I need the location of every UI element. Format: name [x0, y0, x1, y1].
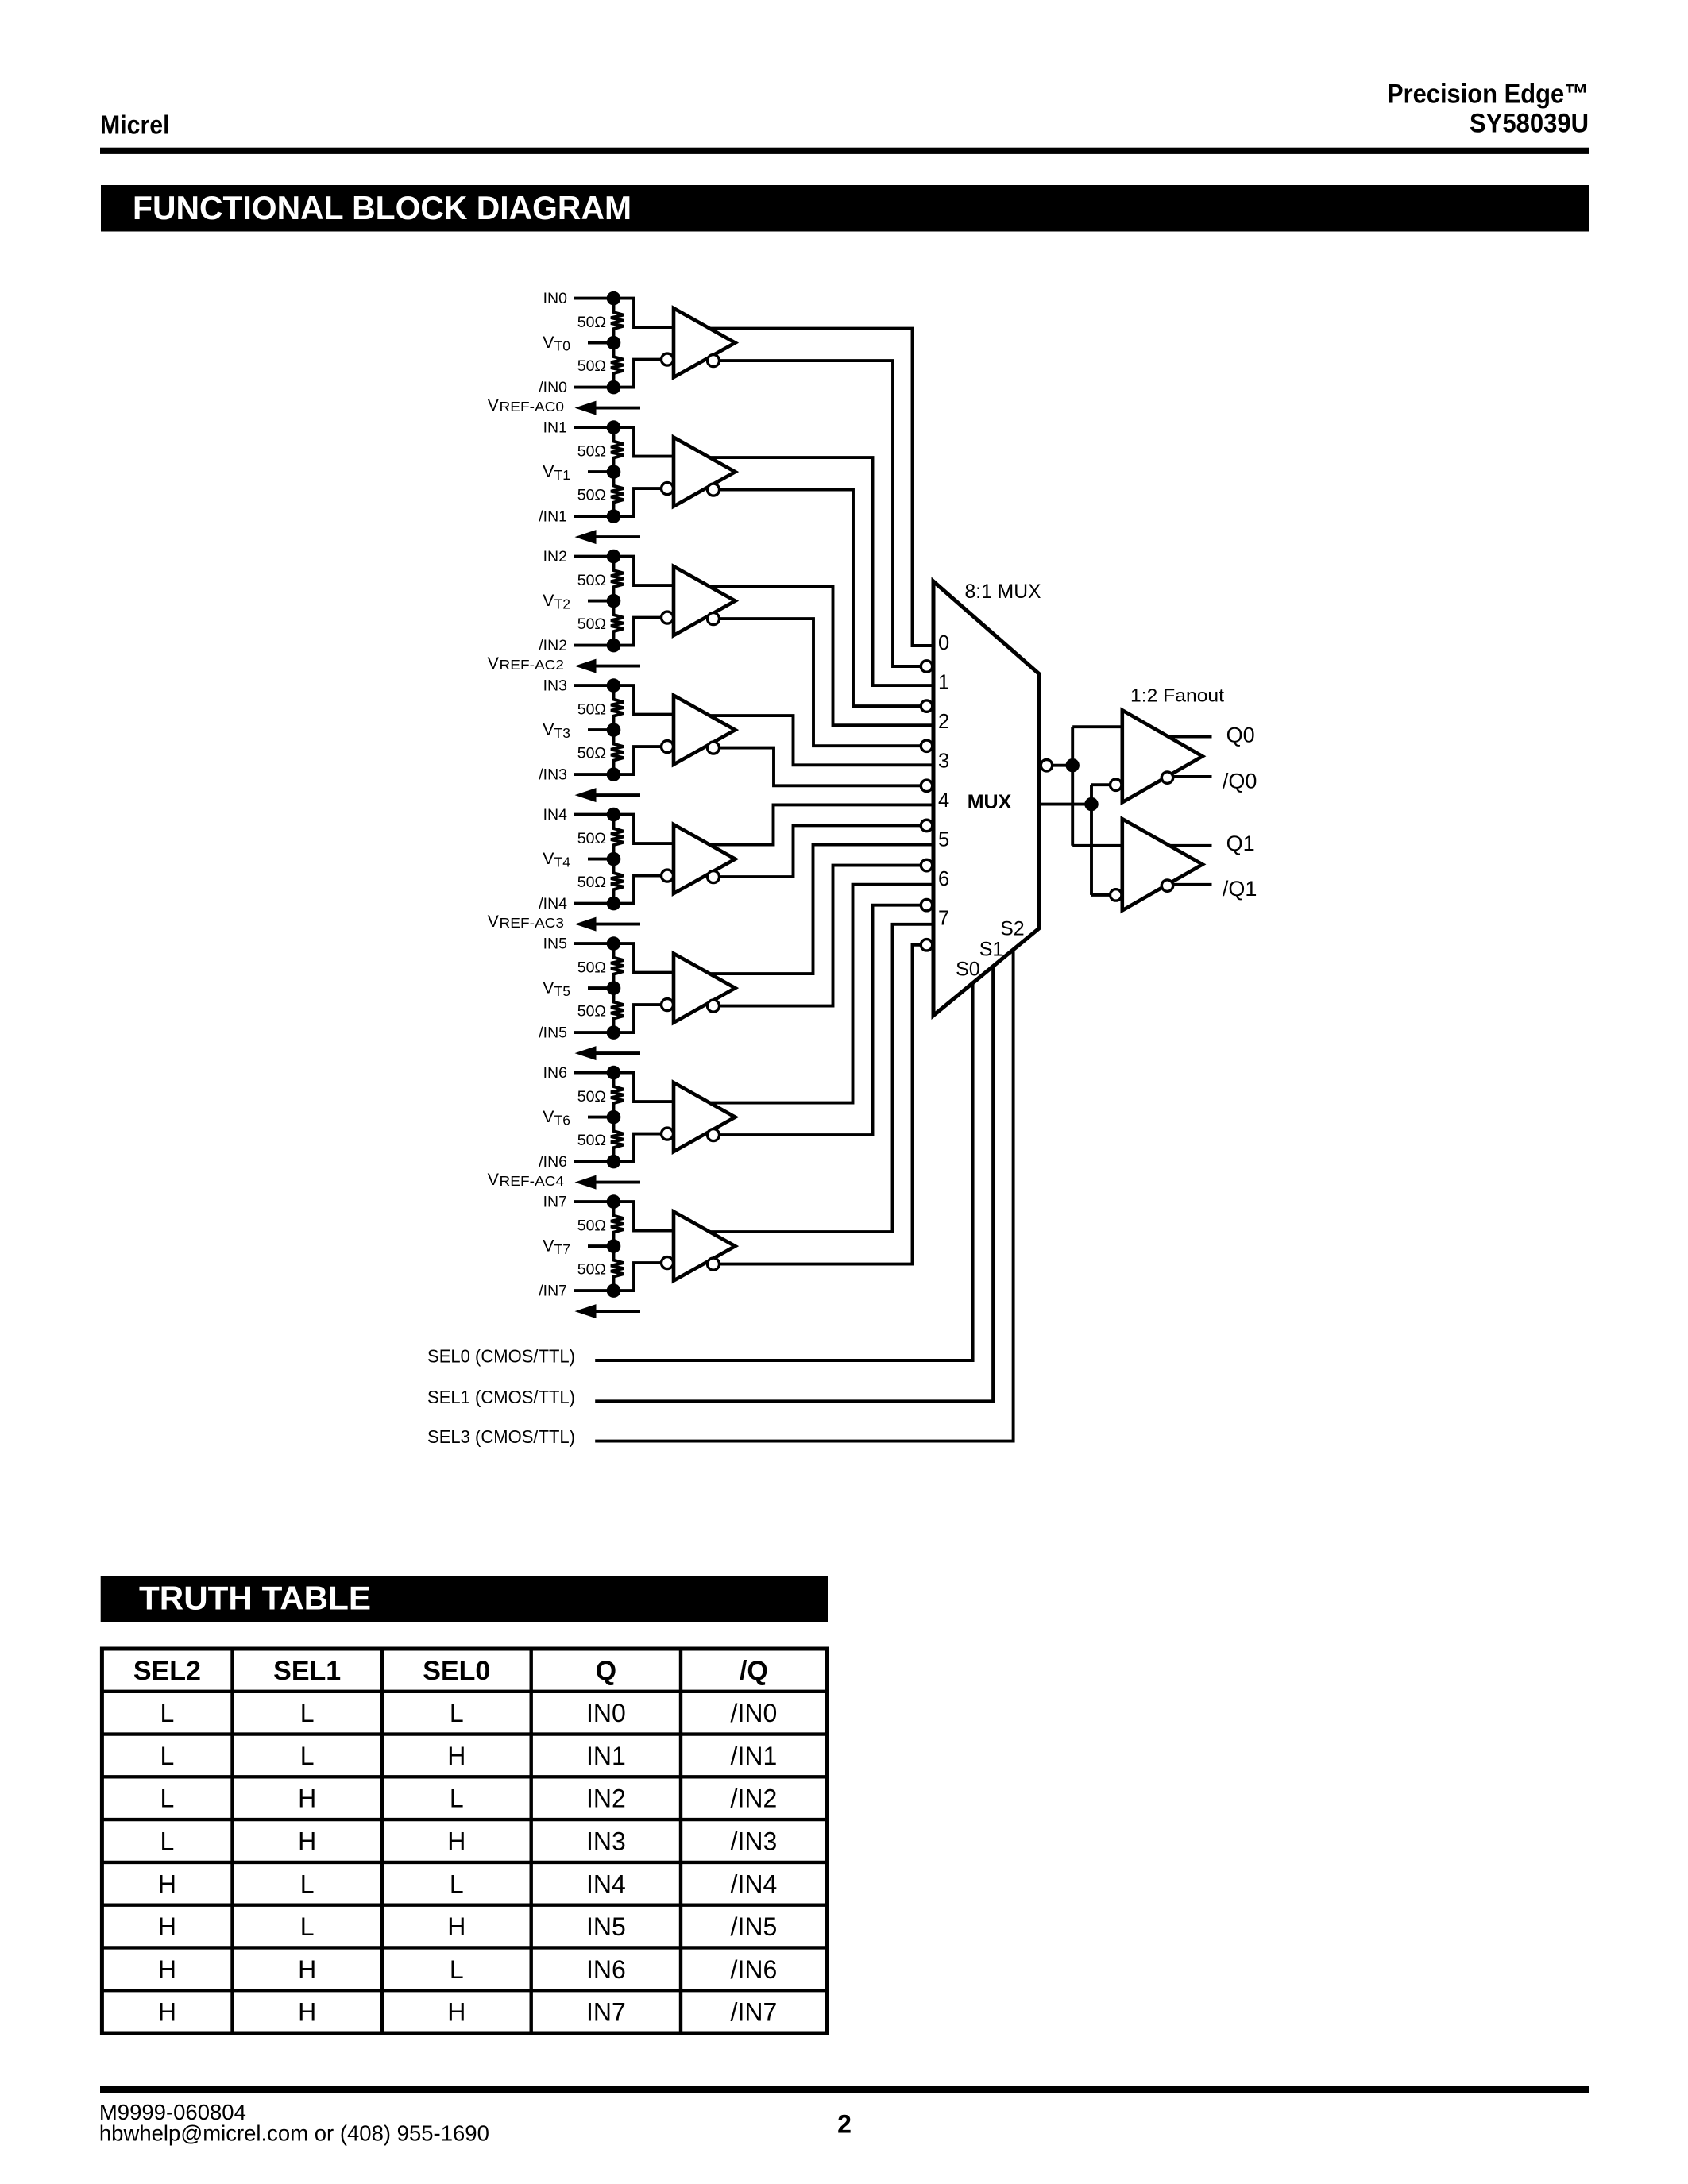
svg-text:L: L — [300, 1699, 315, 1727]
svg-text:hbwhelp@micrel.com or (408) 95: hbwhelp@micrel.com or (408) 955-1690 — [99, 2121, 489, 2146]
junction dots on IN3/VT3//IN3 leads — [607, 678, 621, 781]
input SEL0: select line — [427, 983, 973, 1367]
resistor R7 50&#937; (IN3 to VT3) — [577, 685, 624, 730]
svg-text:/IN1: /IN1 — [539, 508, 567, 526]
svg-text:IN0: IN0 — [586, 1699, 626, 1727]
svg-text:/Q: /Q — [740, 1656, 768, 1686]
svg-text:/Q0: /Q0 — [1223, 770, 1257, 793]
svg-text:MUX: MUX — [968, 791, 1012, 813]
svg-text:V: V — [488, 396, 500, 415]
wire buffer B7 inverted output to MUX pin 7 bubble — [713, 945, 921, 1264]
svg-text:H: H — [298, 1827, 316, 1856]
input SEL1: select line — [427, 967, 993, 1407]
svg-text:IN5: IN5 — [586, 1912, 626, 1941]
wire IN2 to buffer B2 true input — [614, 557, 679, 586]
input SEL3: select line — [427, 950, 1014, 1447]
svg-text:50Ω: 50Ω — [577, 572, 606, 589]
svg-text:/IN6: /IN6 — [539, 1153, 567, 1171]
node VT6: termination voltage stub — [543, 1107, 613, 1129]
svg-text:H: H — [158, 1870, 176, 1898]
MUX pin 6 inverting bubble — [921, 899, 932, 910]
svg-text:SEL0 (CMOS/TTL): SEL0 (CMOS/TTL) — [427, 1346, 575, 1367]
svg-text:IN1: IN1 — [543, 419, 567, 437]
wire fanout F0 true output to Q0 — [1130, 735, 1212, 739]
svg-text:H: H — [158, 1998, 176, 2027]
svg-text:1:2 Fanout: 1:2 Fanout — [1130, 685, 1224, 706]
svg-text:SEL1: SEL1 — [273, 1656, 341, 1686]
wire /IN3 to buffer B3 inverting input — [614, 747, 662, 774]
node VT4: termination voltage stub — [543, 849, 613, 870]
resistor R5 50&#937; (IN2 to VT2) — [577, 557, 624, 601]
svg-text:/IN2: /IN2 — [731, 1785, 778, 1813]
wire buffer B2 inverted output to MUX pin 2 bubble — [713, 619, 921, 746]
svg-text:/IN4: /IN4 — [539, 895, 567, 913]
wire fanout F1 inverted output to /Q1 — [1168, 883, 1212, 886]
node IN5: input label and lead — [543, 936, 614, 953]
svg-text:L: L — [160, 1699, 175, 1727]
resistor R9 50&#937; (IN4 to VT4) — [577, 815, 624, 859]
resistor R8 50&#937; (VT3 to /IN3) — [577, 730, 624, 774]
svg-text:5: 5 — [938, 829, 949, 851]
wire /IN4 to buffer B4 inverting input — [614, 876, 662, 904]
wire buffer B3 inverted output to MUX pin 3 bubble — [713, 748, 921, 786]
svg-text:T4: T4 — [554, 855, 571, 870]
MUX inverted output bubble — [1041, 760, 1052, 771]
svg-text:L: L — [300, 1870, 315, 1898]
node VT2: termination voltage stub — [543, 591, 613, 612]
resistor R2 50&#937; (VT0 to /IN0) — [577, 343, 624, 388]
svg-text:L: L — [450, 1785, 464, 1813]
svg-text:L: L — [300, 1912, 315, 1941]
svg-text:50Ω: 50Ω — [577, 314, 606, 331]
wire /IN6 to buffer B6 inverting input — [614, 1134, 662, 1162]
resistor R15 50&#937; (IN7 to VT7) — [577, 1202, 624, 1246]
svg-text:IN7: IN7 — [586, 1998, 626, 2027]
node /IN1: complement input label and lead — [539, 508, 613, 526]
resistor R11 50&#937; (IN5 to VT5) — [577, 943, 624, 988]
node /IN4: complement input label and lead — [539, 895, 613, 913]
svg-text:T6: T6 — [554, 1113, 570, 1129]
junction node at MUX true output — [1084, 797, 1098, 811]
svg-text:L: L — [160, 1785, 175, 1813]
8:1 MUX U1 body — [933, 581, 1039, 1016]
svg-text:/IN7: /IN7 — [539, 1283, 567, 1300]
svg-text:50Ω: 50Ω — [577, 1261, 606, 1279]
wire /IN0 to buffer B0 inverting input — [614, 360, 662, 388]
svg-text:Q0: Q0 — [1226, 723, 1255, 747]
fanout buffer F0 — [1111, 710, 1203, 802]
node VREF-AC2: reference output arrow — [488, 654, 640, 673]
resistor R6 50&#937; (VT2 to /IN2) — [577, 601, 624, 646]
node VT1: termination voltage stub — [543, 462, 613, 484]
truth table grid — [102, 1649, 826, 2033]
svg-text:3: 3 — [938, 751, 949, 773]
MUX pin 0 inverting bubble — [921, 661, 932, 672]
svg-text:SY58039U: SY58039U — [1470, 109, 1589, 139]
junction dots on IN5/VT5//IN5 leads — [607, 936, 621, 1040]
resistor R12 50&#937; (VT5 to /IN5) — [577, 988, 624, 1032]
wire IN5 to buffer B5 true input — [614, 943, 679, 973]
svg-text:IN5: IN5 — [543, 936, 568, 953]
svg-text:2: 2 — [938, 711, 949, 733]
node IN4: input label and lead — [543, 806, 614, 824]
junction node at MUX inverted output — [1066, 758, 1080, 772]
resistor R10 50&#937; (VT4 to /IN4) — [577, 859, 624, 904]
wire fanout F1 true output to Q1 — [1130, 844, 1212, 847]
unlabeled reference output arrow — [575, 530, 641, 544]
truth table row 7: H H L IN6 /IN6 — [158, 1955, 777, 1984]
MUX pin 4 inverting bubble — [921, 820, 932, 831]
svg-text:IN6: IN6 — [586, 1955, 626, 1984]
svg-text:50Ω: 50Ω — [577, 442, 606, 460]
truth table row 2: L L H IN1 /IN1 — [160, 1742, 778, 1770]
resistor R3 50&#937; (IN1 to VT1) — [577, 427, 624, 472]
svg-text:6: 6 — [938, 868, 949, 890]
svg-text:V: V — [543, 591, 554, 610]
svg-text:50Ω: 50Ω — [577, 700, 606, 718]
svg-text:REF-AC3: REF-AC3 — [500, 915, 565, 931]
truth table row 3: L H L IN2 /IN2 — [160, 1785, 778, 1813]
svg-text:Precision Edge™: Precision Edge™ — [1387, 79, 1589, 110]
resistor R4 50&#937; (VT1 to /IN1) — [577, 472, 624, 516]
junction dots on IN2/VT2//IN2 leads — [607, 550, 621, 653]
svg-text:H: H — [447, 1827, 465, 1856]
resistor R16 50&#937; (VT7 to /IN7) — [577, 1246, 624, 1291]
svg-text:L: L — [160, 1742, 175, 1770]
svg-text:50Ω: 50Ω — [577, 874, 606, 891]
unlabeled reference output arrow — [575, 1304, 641, 1318]
node /IN3: complement input label and lead — [539, 766, 613, 784]
node /IN0: complement input label and lead — [539, 379, 613, 396]
node VT3: termination voltage stub — [543, 720, 613, 742]
fanout buffer F1 — [1111, 819, 1203, 910]
MUX select pin S0 — [956, 958, 980, 980]
svg-text:H: H — [158, 1912, 176, 1941]
svg-text:TRUTH TABLE: TRUTH TABLE — [139, 1580, 371, 1617]
node IN1: input label and lead — [543, 419, 614, 437]
buffer B1 — [662, 438, 736, 507]
footer rule — [100, 2086, 1589, 2093]
wire buffer B2 true output to MUX pin 2 — [677, 587, 937, 726]
svg-text:Micrel: Micrel — [100, 111, 170, 141]
svg-text:/IN1: /IN1 — [731, 1742, 778, 1770]
svg-text:V: V — [543, 333, 554, 352]
svg-text:H: H — [298, 1785, 316, 1813]
node /IN5: complement input label and lead — [539, 1024, 613, 1042]
truth table row 1: L L L IN0 /IN0 — [160, 1699, 778, 1727]
buffer B6 — [662, 1082, 736, 1152]
svg-text:IN3: IN3 — [586, 1827, 626, 1856]
wire IN7 to buffer B7 true input — [614, 1202, 679, 1231]
buffer B4 — [662, 824, 736, 893]
svg-text:H: H — [447, 1912, 465, 1941]
node VREF-AC3: reference output arrow — [488, 912, 640, 932]
svg-text:SEL1 (CMOS/TTL): SEL1 (CMOS/TTL) — [427, 1387, 575, 1407]
wire /IN5 to buffer B5 inverting input — [614, 1005, 662, 1032]
svg-text:L: L — [450, 1955, 464, 1984]
svg-text:IN7: IN7 — [543, 1194, 567, 1211]
svg-text:T7: T7 — [554, 1241, 570, 1257]
svg-text:IN4: IN4 — [586, 1870, 626, 1898]
svg-text:L: L — [160, 1827, 175, 1856]
junction dots on IN4/VT4//IN4 leads — [607, 808, 621, 911]
node VREF-AC4: reference output arrow — [488, 1170, 640, 1190]
wire IN6 to buffer B6 true input — [614, 1073, 679, 1102]
svg-text:IN1: IN1 — [586, 1742, 626, 1770]
section bar: TRUTH TABLE — [101, 1576, 828, 1623]
svg-text:H: H — [158, 1955, 176, 1984]
svg-text:V: V — [543, 462, 554, 481]
svg-text:V: V — [543, 1237, 554, 1256]
svg-text:T2: T2 — [554, 596, 570, 612]
svg-text:/IN6: /IN6 — [731, 1955, 778, 1984]
truth table row 8: H H H IN7 /IN7 — [158, 1998, 777, 2027]
wire buffer B4 inverted output to MUX pin 4 bubble — [713, 825, 921, 877]
wire buffer B6 true output to MUX pin 6 — [677, 885, 937, 1103]
svg-text:/IN5: /IN5 — [731, 1912, 778, 1941]
node /IN6: complement input label and lead — [539, 1153, 613, 1171]
svg-text:SEL0: SEL0 — [423, 1656, 490, 1686]
wire fanout F0 inverted output to /Q0 — [1168, 775, 1212, 778]
svg-text:/Q1: /Q1 — [1223, 877, 1257, 901]
node IN2: input label and lead — [543, 548, 614, 565]
svg-text:2: 2 — [837, 2110, 852, 2139]
wire buffer B1 inverted output to MUX pin 1 bubble — [713, 490, 921, 707]
svg-text:50Ω: 50Ω — [577, 830, 606, 847]
wire buffer B5 inverted output to MUX pin 5 bubble — [713, 866, 921, 1006]
resistor R14 50&#937; (VT6 to /IN6) — [577, 1117, 624, 1162]
svg-text:50Ω: 50Ω — [577, 615, 606, 633]
svg-text:H: H — [298, 1998, 316, 2027]
svg-text:IN6: IN6 — [543, 1064, 567, 1082]
node VT7: termination voltage stub — [543, 1237, 613, 1258]
node IN0: input label and lead — [543, 290, 614, 307]
truth table row 4: L H H IN3 /IN3 — [160, 1827, 778, 1856]
svg-text:50Ω: 50Ω — [577, 1088, 606, 1106]
svg-text:0: 0 — [938, 632, 949, 654]
section bar: FUNCTIONAL BLOCK DIAGRAM — [101, 185, 1589, 232]
wire buffer B7 true output to MUX pin 7 — [677, 924, 937, 1232]
svg-text:V: V — [488, 1170, 500, 1189]
svg-text:SEL3 (CMOS/TTL): SEL3 (CMOS/TTL) — [427, 1426, 575, 1447]
svg-text:T5: T5 — [554, 983, 570, 999]
svg-text:L: L — [450, 1870, 464, 1898]
svg-text:/IN3: /IN3 — [539, 766, 567, 784]
resistor R1 50&#937; (IN0 to VT0) — [577, 299, 624, 343]
wire MUX inverted output to fanout true inputs — [1053, 764, 1073, 767]
node IN3: input label and lead — [543, 677, 614, 695]
svg-text:S1: S1 — [979, 939, 1004, 961]
svg-text:SEL2: SEL2 — [133, 1656, 201, 1686]
svg-text:/IN2: /IN2 — [539, 637, 567, 654]
wire buffer B5 true output to MUX pin 5 — [677, 845, 937, 974]
node VREF-AC0: reference output arrow — [488, 396, 640, 415]
svg-text:/IN0: /IN0 — [731, 1699, 778, 1727]
svg-text:/IN0: /IN0 — [539, 379, 567, 396]
svg-text:Q: Q — [596, 1656, 616, 1686]
svg-text:1: 1 — [938, 672, 949, 694]
svg-text:/IN3: /IN3 — [731, 1827, 778, 1856]
MUX pin 5 inverting bubble — [921, 859, 932, 870]
resistor R13 50&#937; (IN6 to VT6) — [577, 1073, 624, 1117]
MUX select pin S1 — [979, 939, 1004, 961]
svg-text:S0: S0 — [956, 958, 980, 980]
svg-text:V: V — [488, 654, 500, 673]
svg-text:REF-AC0: REF-AC0 — [500, 399, 565, 415]
junction dots on IN1/VT1//IN1 leads — [607, 420, 621, 523]
wire MUX true output to fanout inverting inputs — [1039, 803, 1091, 806]
MUX pin 1 inverting bubble — [921, 700, 932, 712]
buffer B5 — [662, 954, 736, 1023]
svg-text:L: L — [450, 1699, 464, 1727]
svg-text:50Ω: 50Ω — [577, 959, 606, 976]
truth table row 6: H L H IN5 /IN5 — [158, 1912, 777, 1941]
svg-text:8:1 MUX: 8:1 MUX — [965, 581, 1041, 603]
svg-text:V: V — [543, 720, 554, 739]
wire /IN2 to buffer B2 inverting input — [614, 618, 662, 646]
svg-text:T3: T3 — [554, 725, 570, 741]
wire IN3 to buffer B3 true input — [614, 685, 679, 715]
svg-text:7: 7 — [938, 908, 949, 930]
MUX pin 7 inverting bubble — [921, 940, 932, 951]
truth table header row — [133, 1656, 768, 1686]
svg-text:IN2: IN2 — [586, 1785, 626, 1813]
node IN7: input label and lead — [543, 1194, 614, 1211]
buffer B7 — [662, 1212, 736, 1281]
svg-text:L: L — [300, 1742, 315, 1770]
node /IN7: complement input label and lead — [539, 1283, 613, 1300]
unlabeled reference output arrow — [575, 1046, 641, 1060]
buffer B2 — [662, 566, 736, 635]
node /IN2: complement input label and lead — [539, 637, 613, 654]
wire IN1 to buffer B1 true input — [614, 427, 679, 457]
svg-text:/IN4: /IN4 — [731, 1870, 778, 1898]
svg-text:50Ω: 50Ω — [577, 357, 606, 375]
wire IN4 to buffer B4 true input — [614, 815, 679, 844]
svg-text:V: V — [543, 849, 554, 868]
svg-text:T1: T1 — [554, 467, 570, 483]
MUX pin 2 inverting bubble — [921, 740, 932, 751]
svg-text:IN4: IN4 — [543, 806, 568, 824]
buffer B0 — [662, 308, 736, 377]
wire buffer B3 true output to MUX pin 3 — [677, 716, 937, 765]
svg-text:50Ω: 50Ω — [577, 487, 606, 504]
wire buffer B0 inverted output to MUX pin 0 bubble — [713, 361, 921, 666]
wire buffer B0 true output to MUX pin 0 — [677, 329, 937, 646]
wire buffer B4 true output to MUX pin 4 — [677, 805, 937, 844]
svg-text:IN0: IN0 — [543, 290, 568, 307]
svg-text:T0: T0 — [554, 338, 571, 354]
svg-text:IN3: IN3 — [543, 677, 567, 695]
svg-text:REF-AC2: REF-AC2 — [500, 657, 565, 673]
MUX pin 3 inverting bubble — [921, 780, 932, 791]
svg-text:/IN7: /IN7 — [731, 1998, 778, 2027]
svg-text:50Ω: 50Ω — [577, 1003, 606, 1021]
wire IN0 to buffer B0 true input — [614, 299, 679, 328]
svg-text:50Ω: 50Ω — [577, 1217, 606, 1234]
wire buffer B6 inverted output to MUX pin 6 bubble — [713, 905, 921, 1135]
unlabeled reference output arrow — [575, 788, 641, 802]
wire buffer B1 true output to MUX pin 1 — [677, 457, 937, 685]
MUX select pin S2 — [1000, 917, 1025, 940]
svg-text:REF-AC4: REF-AC4 — [500, 1173, 565, 1189]
buffer B3 — [662, 696, 736, 765]
svg-text:Q1: Q1 — [1226, 832, 1255, 855]
wire /IN1 to buffer B1 inverting input — [614, 488, 662, 516]
svg-text:H: H — [447, 1742, 465, 1770]
junction dots on IN6/VT6//IN6 leads — [607, 1066, 621, 1169]
svg-text:S2: S2 — [1000, 917, 1025, 940]
node VT0: termination voltage stub — [543, 333, 613, 354]
svg-text:H: H — [298, 1955, 316, 1984]
svg-text:V: V — [488, 912, 500, 931]
svg-text:/IN5: /IN5 — [539, 1024, 567, 1042]
truth table row 5: H L L IN4 /IN4 — [158, 1870, 777, 1898]
svg-text:50Ω: 50Ω — [577, 1132, 606, 1149]
wire /IN7 to buffer B7 inverting input — [614, 1263, 662, 1291]
svg-text:FUNCTIONAL BLOCK DIAGRAM: FUNCTIONAL BLOCK DIAGRAM — [133, 189, 632, 226]
node IN6: input label and lead — [543, 1064, 614, 1082]
svg-text:50Ω: 50Ω — [577, 745, 606, 762]
junction dots on IN7/VT7//IN7 leads — [607, 1194, 621, 1298]
header rule — [100, 148, 1589, 154]
junction dots on IN0/VT0//IN0 leads — [607, 291, 621, 395]
svg-text:IN2: IN2 — [543, 548, 567, 565]
node VT5: termination voltage stub — [543, 978, 613, 1000]
svg-text:V: V — [543, 978, 554, 997]
svg-text:4: 4 — [938, 789, 949, 812]
svg-text:V: V — [543, 1107, 554, 1126]
svg-text:H: H — [447, 1998, 465, 2027]
